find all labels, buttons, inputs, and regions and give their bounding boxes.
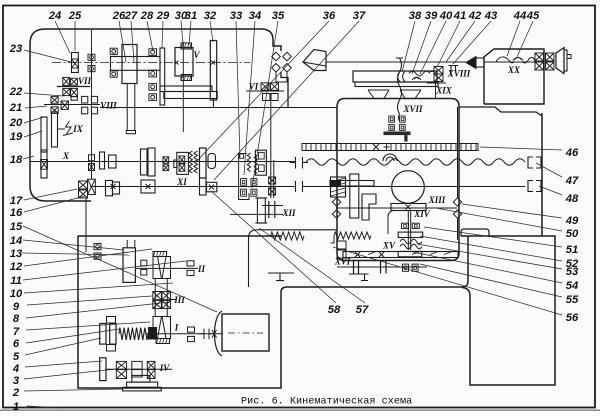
speed box input bearing upper bbox=[141, 260, 147, 266]
svg-text:39: 39 bbox=[425, 10, 438, 22]
bed top right of carriage bbox=[459, 107, 542, 116]
svg-text:58: 58 bbox=[328, 304, 341, 316]
svg-text:43: 43 bbox=[484, 10, 498, 22]
pedestal base bbox=[123, 387, 162, 391]
svg-text:15: 15 bbox=[10, 221, 23, 233]
friction clutch body dark bbox=[148, 327, 157, 340]
svg-text:46: 46 bbox=[565, 147, 579, 159]
tool slide flange bbox=[355, 82, 438, 87]
feed bracket spring bbox=[271, 232, 305, 240]
motor centre line bbox=[228, 332, 263, 334]
tailstock screw nut b bbox=[535, 62, 544, 70]
svg-text:Рис. 6. Кинематическая схема: Рис. 6. Кинематическая схема bbox=[241, 397, 412, 408]
svg-text:1: 1 bbox=[13, 401, 19, 411]
svg-text:41: 41 bbox=[453, 10, 466, 22]
rack engagement marks bbox=[373, 144, 379, 150]
motor spring bbox=[119, 328, 148, 340]
svg-text:27: 27 bbox=[124, 10, 138, 22]
shaft I bearing lower bbox=[188, 336, 195, 341]
gearbox on shaft XI b bbox=[141, 180, 155, 193]
svg-text:7: 7 bbox=[13, 326, 20, 338]
svg-text:38: 38 bbox=[409, 10, 422, 22]
svg-text:32: 32 bbox=[204, 10, 217, 22]
cutting wave bbox=[409, 71, 430, 76]
chuck cone inner line bbox=[303, 62, 326, 66]
pinion shaft box bbox=[391, 204, 426, 211]
svg-text:40: 40 bbox=[439, 10, 453, 22]
gear on shaft X c bbox=[141, 149, 148, 175]
svg-text:XVI: XVI bbox=[334, 257, 351, 267]
shaft III cluster bbox=[153, 292, 162, 300]
cone pulley shaft I cap bbox=[156, 339, 170, 344]
svg-text:III: III bbox=[173, 295, 185, 305]
belt to speed box bbox=[126, 84, 128, 131]
casing wall foot bbox=[212, 99, 214, 108]
elastic link wavy vertical bbox=[396, 58, 403, 121]
svg-text:II: II bbox=[197, 264, 206, 274]
base front edge bbox=[281, 236, 468, 292]
shaft V left bearing upper bbox=[110, 48, 117, 54]
collar on shaft X bbox=[174, 160, 177, 168]
cone pulley shaft I right half bbox=[162, 317, 171, 339]
cluster squares row2 bbox=[241, 189, 247, 196]
half nut block hatched bbox=[331, 177, 346, 197]
svg-text:9: 9 bbox=[13, 301, 20, 313]
svg-text:48: 48 bbox=[565, 193, 579, 205]
shaft I coupling bbox=[199, 329, 217, 339]
diamond step link bbox=[276, 73, 287, 83]
lever under XVI bbox=[349, 274, 369, 281]
gear rack band bbox=[302, 144, 478, 151]
speed box top bearings bbox=[94, 244, 101, 250]
svg-text:14: 14 bbox=[10, 235, 23, 247]
bearing above speed box a bbox=[79, 181, 88, 189]
svg-text:29: 29 bbox=[156, 10, 170, 22]
rack pinion wheel bbox=[392, 171, 425, 204]
svg-text:X: X bbox=[62, 151, 70, 161]
tailstock body bbox=[484, 49, 544, 104]
svg-text:16: 16 bbox=[10, 207, 23, 219]
svg-text:50: 50 bbox=[566, 228, 579, 240]
shaft XVIII tee marks bbox=[449, 66, 459, 77]
vertical shaft bearing b bbox=[269, 188, 276, 195]
spindle rear bearing block bbox=[72, 53, 79, 73]
svg-text:19: 19 bbox=[10, 131, 23, 143]
cone pulley shaft I left half bbox=[153, 317, 162, 339]
motor cone curved bbox=[215, 311, 223, 356]
drive vertical to bed bbox=[457, 107, 459, 198]
shaft XI line bbox=[90, 186, 295, 188]
tailstock quill line bbox=[484, 61, 535, 63]
shaft X left bearing bbox=[41, 160, 48, 170]
shaft VIII gear bbox=[61, 101, 68, 109]
shaft IX stub bbox=[57, 128, 65, 130]
spindle nose steps bbox=[281, 72, 288, 107]
XVIII box stub and drop bbox=[430, 72, 436, 99]
svg-text:42: 42 bbox=[468, 10, 482, 22]
bottom scan edge bbox=[0, 409, 600, 411]
dead centre barrel bbox=[476, 58, 484, 67]
svg-text:XVIII: XVIII bbox=[447, 69, 471, 79]
svg-text:V: V bbox=[193, 50, 200, 60]
sliding cluster toothed strips bbox=[247, 153, 250, 172]
apron plate bbox=[350, 174, 359, 218]
headstock housing outline bbox=[30, 29, 281, 186]
workpiece centre line bbox=[326, 61, 466, 63]
shaft V bearing column bbox=[149, 49, 157, 56]
cone clutch ticks bbox=[269, 201, 275, 218]
tailstock screw nut a bbox=[535, 53, 544, 61]
shaft IV line bbox=[106, 368, 172, 370]
dead centre bbox=[466, 57, 476, 69]
cutting arcs bbox=[398, 72, 405, 82]
shaft XIII line bbox=[336, 207, 457, 209]
shaft VII gear a bbox=[63, 77, 70, 85]
sliding gear column c bbox=[41, 150, 47, 178]
apron squares bbox=[337, 241, 346, 249]
hatched collar lower bbox=[181, 75, 192, 81]
spindle nose bearing diamonds bbox=[272, 52, 281, 61]
casing right wall large gear bbox=[210, 41, 216, 101]
lead screw end bracket bbox=[528, 181, 541, 192]
tool holder line bbox=[427, 82, 446, 84]
bed lower rail bbox=[461, 236, 555, 385]
shaft XVI bearing b bbox=[412, 264, 418, 271]
shaft XII stub line bbox=[230, 213, 262, 215]
dovetail wedges bbox=[368, 90, 421, 99]
svg-text:8: 8 bbox=[13, 313, 20, 325]
shaft XVI bearing a bbox=[403, 264, 409, 271]
svg-text:49: 49 bbox=[565, 215, 579, 227]
belt resume stub bbox=[126, 240, 128, 248]
svg-text:XI: XI bbox=[176, 177, 187, 187]
coupling on lead screw bbox=[291, 181, 308, 192]
worm waves bbox=[400, 239, 422, 243]
gear column to shaft XI bbox=[200, 178, 207, 195]
svg-text:IX: IX bbox=[72, 124, 84, 134]
leader lines top row bbox=[55, 21, 70, 53]
main drive pulley on shaft V bbox=[122, 45, 137, 84]
worm gear boxes bbox=[402, 223, 409, 228]
shaft XVI clutch a bbox=[354, 261, 359, 274]
gearbox on shaft XI c bbox=[207, 182, 217, 192]
shaft VIII squares lower bbox=[82, 107, 88, 114]
worm support elbow bbox=[388, 210, 394, 234]
shaft IV plate bbox=[100, 358, 106, 381]
shaft X line bbox=[30, 161, 295, 163]
clutch block on shaft X bbox=[177, 152, 189, 174]
bed top line bbox=[100, 107, 337, 109]
XVII guide squares bbox=[389, 116, 395, 122]
svg-text:3: 3 bbox=[13, 375, 20, 387]
vertical link shaft bbox=[85, 198, 87, 252]
svg-text:VIII: VIII bbox=[100, 101, 117, 111]
casing bottom slab bbox=[160, 86, 212, 92]
svg-text:21: 21 bbox=[9, 102, 22, 114]
shaft X bearing pair bbox=[89, 155, 95, 161]
shaft VI line bbox=[246, 90, 284, 92]
svg-text:24: 24 bbox=[48, 10, 62, 22]
spring plates bbox=[100, 324, 106, 345]
svg-text:25: 25 bbox=[68, 10, 82, 22]
shaft IV gear a bbox=[116, 361, 126, 369]
svg-text:28: 28 bbox=[140, 10, 154, 22]
svg-text:4: 4 bbox=[12, 363, 20, 375]
feed rod wavy line bbox=[306, 159, 525, 165]
svg-text:55: 55 bbox=[566, 294, 579, 306]
svg-text:11: 11 bbox=[10, 275, 22, 287]
svg-text:IV: IV bbox=[159, 363, 171, 373]
feed rod end bracket bbox=[528, 157, 541, 168]
svg-text:XIV: XIV bbox=[413, 209, 431, 219]
shaft II bearing right a bbox=[187, 261, 194, 266]
shaft VII hub bbox=[71, 97, 77, 101]
svg-text:XIII: XIII bbox=[428, 195, 446, 205]
shaft XVI line bbox=[337, 266, 427, 268]
svg-text:XX: XX bbox=[507, 65, 521, 75]
shaft II bearing right b bbox=[187, 270, 194, 275]
cone pulley shaft II right half bbox=[162, 257, 171, 279]
shaft VII gear d bbox=[71, 88, 78, 96]
cutting omega mark bbox=[412, 77, 421, 80]
gear on shaft X a bbox=[100, 152, 105, 169]
rack gap bbox=[368, 143, 391, 152]
headstock housing bottom bbox=[30, 186, 91, 201]
apron bar bbox=[330, 181, 374, 187]
XVII support bar bbox=[384, 132, 411, 136]
apron bar dark end bbox=[330, 181, 341, 187]
shaft VII gear c bbox=[63, 88, 70, 95]
gear block on shaft V bbox=[175, 48, 193, 77]
large gear shaft X bbox=[200, 148, 207, 178]
apron spring bbox=[334, 232, 371, 239]
svg-text:20: 20 bbox=[9, 117, 23, 129]
hatched collar upper bbox=[181, 43, 192, 49]
cone pulley shaft II left half bbox=[153, 257, 162, 279]
tailstock screw nut d bbox=[546, 62, 555, 70]
shaft I line bbox=[146, 333, 222, 335]
svg-text:6: 6 bbox=[13, 338, 20, 350]
tailstock screw nut c bbox=[546, 53, 555, 61]
svg-text:5: 5 bbox=[13, 351, 20, 363]
pedestal top bbox=[132, 375, 150, 382]
XVII support stub bbox=[404, 135, 407, 141]
carriage apron housing bbox=[337, 99, 459, 261]
feed rod spring arcs bbox=[383, 154, 397, 161]
toothed sleeve teeth bbox=[189, 151, 193, 173]
speed box input bearing lower bbox=[141, 269, 147, 275]
svg-text:XII: XII bbox=[281, 208, 296, 218]
shaft XV bar bbox=[343, 252, 458, 258]
shaft V sleeve bbox=[111, 57, 161, 71]
gear on shaft X b bbox=[109, 155, 117, 168]
shaft IV gear c bbox=[147, 361, 155, 369]
belt break cap bbox=[126, 131, 135, 134]
tailstock handwheel bbox=[556, 48, 564, 74]
shaft VIII bearing lower bbox=[51, 107, 58, 114]
apron step block bbox=[362, 194, 376, 220]
gear on shaft X d bbox=[148, 148, 155, 176]
svg-text:33: 33 bbox=[230, 10, 243, 22]
svg-text:35: 35 bbox=[272, 10, 285, 22]
handwheel bar bbox=[564, 50, 567, 71]
shaft XVI clutch b bbox=[381, 261, 387, 274]
shaft VIII squares upper bbox=[82, 96, 88, 103]
worm rect lower bbox=[398, 251, 422, 256]
svg-text:18: 18 bbox=[10, 154, 23, 166]
shaft VII gear b bbox=[71, 78, 78, 85]
coupling on feed rod bbox=[290, 157, 308, 169]
handle IX symbol bbox=[63, 121, 73, 136]
double gear block bbox=[255, 150, 266, 175]
leader lines right column bbox=[480, 147, 562, 150]
shaft VI gear upper right bbox=[271, 83, 279, 91]
clutch gear on shaft XII bbox=[257, 198, 265, 223]
leader 58 bbox=[211, 191, 336, 303]
bearing above speed box b bbox=[79, 190, 88, 198]
worm vertical shaft bbox=[407, 211, 409, 251]
shaft V left bearing lower bbox=[110, 71, 117, 77]
svg-text:36: 36 bbox=[323, 10, 336, 22]
u-joint diamonds left bbox=[332, 198, 340, 206]
cone pulley shaft II cap bbox=[153, 252, 167, 257]
svg-text:45: 45 bbox=[526, 10, 540, 22]
guard top box bbox=[239, 154, 243, 158]
shaft III stub bbox=[171, 299, 177, 301]
svg-text:17: 17 bbox=[10, 195, 23, 207]
svg-text:34: 34 bbox=[249, 10, 262, 22]
svg-text:47: 47 bbox=[565, 175, 579, 187]
shaft V centre line bbox=[52, 62, 250, 64]
lead screw line bbox=[306, 186, 525, 188]
leader 57 bbox=[259, 228, 365, 303]
svg-text:XVII: XVII bbox=[402, 104, 423, 114]
shaft X mid bearing bbox=[163, 157, 169, 164]
svg-text:44: 44 bbox=[513, 10, 527, 22]
shaft IV gear b bbox=[132, 361, 142, 369]
inner shaft lower gear bbox=[88, 179, 96, 194]
casing foot slab bbox=[164, 92, 217, 99]
handwheel stub bbox=[567, 55, 571, 59]
plate squares upper bbox=[107, 317, 116, 324]
svg-text:31: 31 bbox=[185, 10, 197, 22]
svg-text:12: 12 bbox=[10, 261, 23, 273]
cone clutch lines bbox=[262, 205, 283, 207]
belt pulley shaft II bbox=[123, 248, 135, 283]
shaft I bearing upper bbox=[188, 327, 195, 332]
worm rect upper bbox=[398, 232, 423, 237]
svg-text:37: 37 bbox=[353, 10, 366, 22]
selector lever bbox=[268, 273, 294, 281]
spindle rear bearing cross bbox=[72, 59, 79, 68]
spindle bearings right of block bbox=[88, 54, 95, 60]
svg-text:53: 53 bbox=[566, 266, 579, 278]
svg-text:23: 23 bbox=[9, 43, 23, 55]
feed bracket box bbox=[249, 230, 338, 287]
shaft VI gear lower right bbox=[271, 94, 278, 101]
bed right edge under tailstock bbox=[541, 113, 543, 236]
shaft VIII bearing upper bbox=[51, 97, 58, 104]
svg-text:10: 10 bbox=[10, 288, 23, 300]
shaft VII line bbox=[57, 86, 90, 88]
svg-text:13: 13 bbox=[10, 248, 23, 260]
tool slide bbox=[353, 71, 437, 82]
svg-text:54: 54 bbox=[566, 280, 579, 292]
feed gearbox housing bbox=[78, 236, 281, 388]
bed stop boss bbox=[461, 229, 489, 236]
casing left wall bbox=[160, 48, 165, 105]
gearbox on shaft XI a bbox=[106, 181, 113, 196]
svg-text:XV: XV bbox=[382, 241, 396, 251]
headstock inner wall vertical bbox=[182, 42, 184, 132]
cluster squares row1 bbox=[241, 179, 247, 186]
shaft VI gear upper left bbox=[261, 83, 269, 91]
shaft VIII line bbox=[44, 104, 100, 106]
vertical shaft bearing a bbox=[269, 177, 276, 184]
svg-text:VII: VII bbox=[78, 76, 92, 86]
svg-text:57: 57 bbox=[356, 304, 369, 316]
svg-text:2: 2 bbox=[12, 387, 20, 399]
vertical shaft to clutch bbox=[270, 101, 272, 198]
shaft V x marks bbox=[175, 61, 216, 65]
svg-text:I: I bbox=[174, 323, 179, 333]
tailstock screw spring bbox=[496, 57, 535, 63]
chuck cone bbox=[303, 50, 326, 71]
svg-text:22: 22 bbox=[9, 86, 23, 98]
plate squares lower bbox=[107, 345, 116, 352]
motor body bbox=[222, 314, 269, 351]
sliding cluster guard bracket bbox=[239, 154, 249, 200]
shaft XVIII gearbox bbox=[434, 67, 443, 75]
headstock inner shaft vertical bbox=[91, 30, 93, 179]
shaft VI gear lower left bbox=[263, 94, 271, 101]
pedestal mid bbox=[127, 382, 158, 387]
svg-text:56: 56 bbox=[566, 312, 579, 324]
sliding gear column b bbox=[52, 112, 58, 147]
round gear shaft X bbox=[208, 154, 216, 169]
u-joint diamonds right bbox=[453, 198, 461, 206]
leader lines left column bbox=[24, 50, 71, 62]
shaft II line bbox=[136, 267, 199, 269]
sliding gear column a bbox=[41, 117, 47, 152]
variator belt column bbox=[154, 279, 156, 317]
svg-text:51: 51 bbox=[566, 244, 578, 256]
